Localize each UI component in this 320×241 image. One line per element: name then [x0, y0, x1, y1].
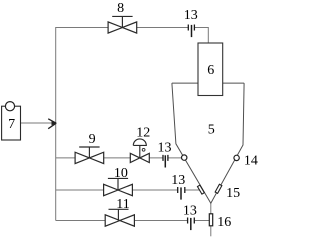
svg-text:10: 10 — [114, 166, 128, 181]
svg-text:13: 13 — [184, 8, 198, 23]
svg-text:14: 14 — [244, 154, 258, 169]
svg-text:11: 11 — [116, 197, 129, 212]
svg-text:9: 9 — [89, 132, 96, 147]
svg-text:13: 13 — [158, 140, 172, 155]
svg-text:6: 6 — [207, 63, 214, 78]
svg-text:16: 16 — [217, 215, 231, 230]
svg-text:5: 5 — [208, 123, 215, 138]
svg-text:12: 12 — [136, 125, 150, 140]
svg-text:8: 8 — [117, 1, 124, 16]
svg-text:15: 15 — [226, 186, 240, 201]
svg-text:13: 13 — [171, 173, 185, 188]
svg-text:7: 7 — [8, 117, 15, 132]
svg-text:13: 13 — [183, 203, 197, 218]
